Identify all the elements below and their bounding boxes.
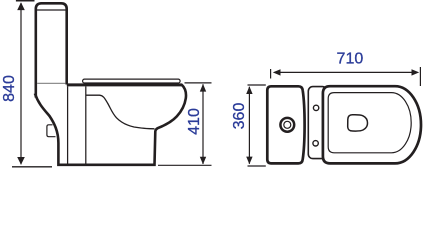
dim 360 vertical line [248,87,250,164]
dim 410 vertical line [202,84,204,164]
bowl rim line [67,83,183,86]
hinge bolt top [313,105,318,110]
dim 360 bottom extension tick [248,165,266,167]
cistern tank outline (side) [36,3,67,97]
dim 840 top extension tick [16,0,35,2]
dim 710 left arrowhead [273,69,281,75]
dim 410 bottom arrowhead [200,157,206,165]
svg-text:840: 840 [1,75,18,102]
svg-text:410: 410 [186,108,203,135]
seat lid inner outline [328,93,411,153]
dim 410 bottom extension line [158,164,212,166]
bowl inner swoosh [86,95,155,129]
floor line under 840 arrow [12,166,52,168]
flush button outer ring [280,118,294,132]
pedestal back curve, base and front outer curve [35,85,186,165]
seat outer outline (top view) [323,86,421,163]
hinge bolt bottom [313,141,318,146]
seat lid bar (side) [83,79,181,83]
dim 410 top extension line [185,82,212,84]
dim 710 left extension tick [270,69,272,79]
lid damper blob [348,115,368,131]
dim 410 top arrowhead [200,84,206,92]
svg-text:360: 360 [231,103,248,130]
dim 710 right arrowhead [412,69,420,75]
tank lid line [36,9,67,11]
dim 840 top arrowhead [17,2,25,10]
bolt cap on back curve [47,125,56,137]
hinge plate [308,87,327,159]
dim 710 line [275,71,417,73]
dim 360 bottom arrowhead [246,157,252,165]
dim 710 right extension tick [419,67,421,86]
dim 840 bottom arrowhead [17,157,25,165]
cistern outline (top view) [267,86,304,163]
vertical line at bowl back [85,86,87,164]
flush button inner ring [284,121,291,128]
tank bottom grey line [37,82,65,84]
vertical line: tank right edge continuation [67,86,69,164]
svg-text:710: 710 [337,51,364,68]
dim 360 top arrowhead [246,86,252,94]
dim 360 top extension tick [248,84,266,86]
dim 840 vertical line [20,3,22,164]
